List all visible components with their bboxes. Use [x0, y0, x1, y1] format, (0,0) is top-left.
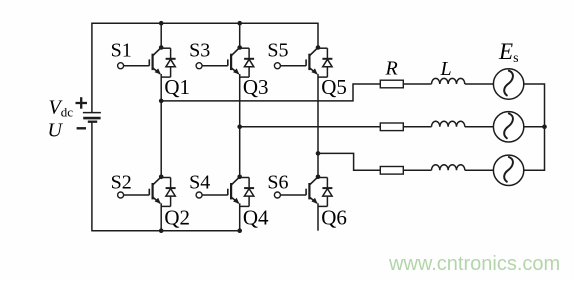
diode across Q5	[318, 48, 332, 77]
wire R to L (phase B)	[403, 126, 431, 128]
node collector junction Q4	[237, 175, 242, 180]
AC source Es (phase A)	[493, 69, 523, 99]
wire leg 1 emitter stub	[160, 203, 162, 230]
svg-text:S2: S2	[111, 172, 132, 194]
transistor Q1 (IGBT)	[149, 48, 161, 75]
inductor L (phase B)	[432, 121, 465, 127]
svg-text:S5: S5	[267, 40, 288, 62]
resistor R (phase C)	[380, 167, 403, 175]
svg-text:S6: S6	[267, 172, 288, 194]
svg-text:S3: S3	[189, 40, 210, 62]
wire gate lead S2	[124, 194, 150, 196]
wire phase C output	[318, 153, 381, 170]
wire leg 3 emitter stub (open end)	[317, 203, 319, 230]
wire top dc rail	[92, 22, 318, 24]
wire bottom dc rail	[92, 230, 240, 232]
wire R to L (phase C)	[403, 169, 431, 171]
node collector junction Q3	[237, 45, 242, 50]
wire gate lead S1	[124, 65, 150, 67]
wire R to L (phase A)	[403, 83, 431, 85]
node collector junction Q6	[316, 175, 321, 180]
wire leg 2 midpoint	[239, 74, 241, 177]
node top rail / leg 2	[237, 21, 242, 26]
svg-text:Q1: Q1	[164, 75, 190, 99]
transistor Q2 (IGBT)	[149, 177, 161, 204]
resistor R (phase A)	[380, 80, 403, 88]
node collector junction Q1	[159, 45, 164, 50]
transistor Q3 (IGBT)	[228, 48, 240, 75]
wire gate lead S3	[202, 65, 228, 67]
resistor R (phase B)	[380, 123, 403, 131]
gate terminal S6	[274, 192, 280, 198]
svg-text:R: R	[385, 58, 398, 80]
node top rail / leg 1	[159, 21, 164, 26]
transistor Q6 (IGBT)	[306, 177, 318, 204]
battery Vdc	[83, 113, 101, 122]
node collector junction Q5	[316, 45, 321, 50]
svg-text:U: U	[48, 119, 64, 141]
inductor L (phase A)	[432, 78, 465, 84]
node bottom rail / leg 1	[159, 228, 164, 233]
wire leg 2 emitter stub	[239, 203, 241, 230]
battery + terminal mark	[76, 97, 88, 109]
svg-text:Q4: Q4	[243, 206, 269, 230]
node phase A tap	[159, 99, 164, 104]
wire gate lead S6	[280, 194, 306, 196]
gate terminal S4	[196, 192, 202, 198]
transistor Q4 (IGBT)	[228, 177, 240, 204]
svg-text:L: L	[440, 58, 452, 80]
svg-text:Q6: Q6	[321, 206, 347, 230]
transistor Q5 (IGBT)	[306, 48, 318, 75]
wire leg 2 collector stub	[239, 23, 241, 47]
wire phase B output	[240, 126, 381, 128]
svg-text:Q2: Q2	[164, 206, 190, 230]
diode across Q4	[240, 178, 254, 207]
wire L to source (phase B)	[465, 126, 494, 128]
wire gate lead S5	[280, 65, 306, 67]
wire leg 3 midpoint	[317, 74, 319, 177]
diode across Q1	[161, 48, 175, 77]
wire leg 1 collector stub	[160, 23, 162, 47]
diode across Q2	[161, 178, 175, 207]
wire leg 3 collector stub	[317, 23, 319, 48]
wire right return bus	[524, 84, 545, 170]
node collector junction Q2	[159, 175, 164, 180]
svg-text:Q5: Q5	[321, 75, 347, 99]
svg-text:S1: S1	[111, 40, 132, 62]
wire leg 1 midpoint	[160, 74, 162, 177]
battery - terminal mark	[77, 127, 86, 129]
wire gate lead S4	[202, 194, 228, 196]
gate terminal S2	[118, 192, 124, 198]
gate terminal S5	[274, 63, 280, 69]
gate terminal S3	[196, 63, 202, 69]
gate terminal S1	[118, 63, 124, 69]
svg-text:www.cntronics.com: www.cntronics.com	[388, 253, 560, 275]
AC source Es (phase C)	[493, 155, 523, 185]
node phase C tap	[316, 151, 321, 156]
node right bus junction	[542, 125, 547, 130]
wire phase A output	[161, 84, 381, 101]
svg-text:Q3: Q3	[243, 75, 269, 99]
wire L to source (phase A)	[465, 83, 494, 85]
diode across Q3	[240, 48, 254, 77]
svg-text:S4: S4	[189, 172, 210, 194]
wire battery negative lead	[91, 121, 93, 231]
wire L to source (phase C)	[465, 169, 494, 171]
AC source Es (phase B)	[493, 112, 523, 142]
inductor L (phase C)	[432, 165, 465, 171]
node phase B tap	[237, 125, 242, 130]
wire battery positive lead	[91, 23, 93, 113]
diode across Q6	[318, 178, 332, 207]
node bottom rail / leg 2	[237, 228, 242, 233]
wire source B to bus	[524, 126, 545, 128]
